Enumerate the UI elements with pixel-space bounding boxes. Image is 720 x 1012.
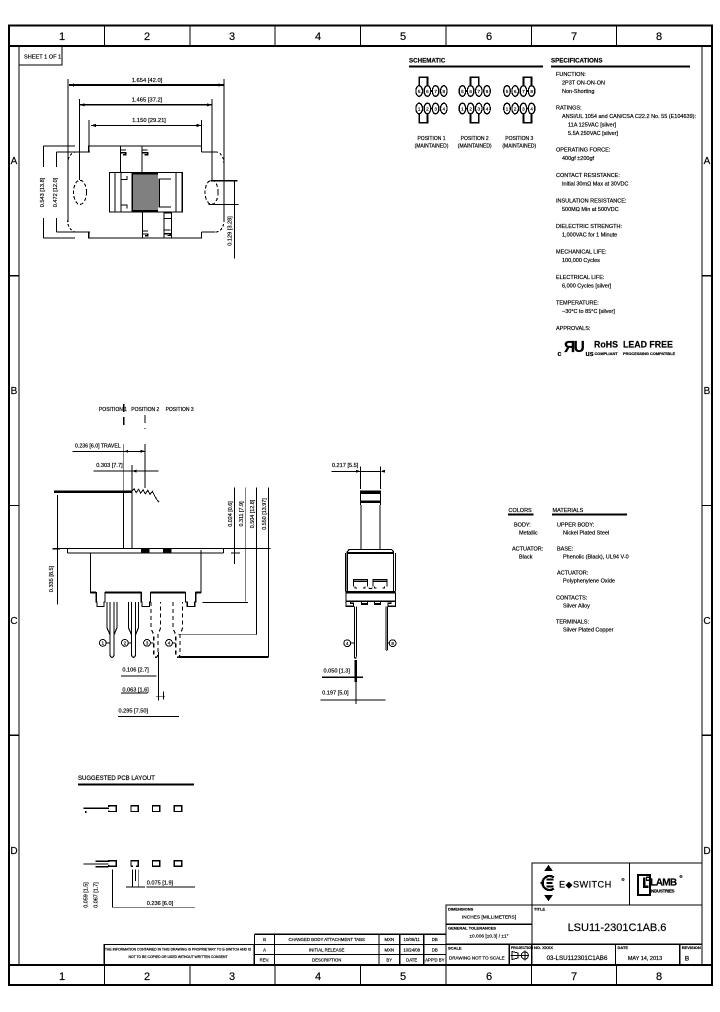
dimension 0.197 [5.0] [321, 691, 386, 700]
top band thick line [9, 45, 712, 47]
svg-text:7: 7 [522, 89, 525, 94]
svg-text:MXN: MXN [385, 947, 395, 952]
svg-text:us: us [586, 351, 594, 358]
svg-text:3: 3 [146, 641, 149, 646]
svg-text:5: 5 [506, 89, 509, 94]
slider left block [121, 173, 132, 213]
pins (end view) [355, 606, 357, 658]
top attachment tab [121, 146, 148, 173]
svg-text:4: 4 [315, 971, 321, 983]
slider right C bracket [159, 179, 171, 207]
svg-text:Metallic: Metallic [519, 531, 538, 537]
svg-text:c: c [558, 351, 562, 358]
dimension 0.303 [7.7] [94, 463, 159, 492]
svg-text:0.335 [8.5]: 0.335 [8.5] [49, 565, 55, 592]
bottom dimension 0.295 [7.50] [118, 709, 179, 717]
svg-text:0.550 [13.97]: 0.550 [13.97] [262, 498, 268, 530]
svg-text:±0.006 [±0.3] / ±1°: ±0.006 [±0.3] / ±1° [469, 934, 508, 940]
svg-text:1: 1 [418, 107, 421, 112]
svg-text:0.236 [6.0]: 0.236 [6.0] [147, 901, 174, 907]
svg-text:DATE: DATE [406, 958, 417, 963]
svg-text:4: 4 [486, 107, 489, 112]
svg-text:NO. XXXX: NO. XXXX [534, 945, 553, 950]
svg-text:(MAINTAINED): (MAINTAINED) [458, 143, 492, 149]
right side dimension lines [203, 488, 269, 657]
bottom attachment tab [142, 212, 171, 239]
svg-text:Non-Shorting: Non-Shorting [562, 89, 594, 95]
svg-text:SCHEMATIC: SCHEMATIC [409, 58, 446, 65]
zone column numbers top [59, 31, 662, 43]
svg-text:(MAINTAINED): (MAINTAINED) [415, 143, 449, 149]
svg-text:LSU11-2301C1AB.6: LSU11-2301C1AB.6 [568, 922, 667, 934]
svg-text:PROJECTION: PROJECTION [511, 946, 534, 950]
svg-text:SCALE: SCALE [448, 946, 462, 951]
svg-text:10/24/08: 10/24/08 [403, 947, 420, 952]
svg-text:Initial 30mΩ Max at 30VDC: Initial 30mΩ Max at 30VDC [562, 182, 628, 188]
slider knurl hatch [133, 173, 158, 211]
title block outline [446, 863, 702, 965]
svg-text:1: 1 [506, 107, 509, 112]
svg-text:B: B [263, 937, 266, 942]
svg-text:PROCESSING COMPATIBLE: PROCESSING COMPATIBLE [623, 351, 676, 356]
svg-text:0.197 [5.0]: 0.197 [5.0] [322, 691, 349, 697]
svg-text:400gf ±200gf: 400gf ±200gf [562, 156, 595, 162]
svg-text:MATERIALS: MATERIALS [553, 508, 584, 514]
svg-text:INCHES [MILLIMETERS]: INCHES [MILLIMETERS] [462, 915, 516, 921]
base bottom thick edges [91, 592, 201, 594]
svg-text:500MΩ Min at 500VDC: 500MΩ Min at 500VDC [562, 207, 619, 213]
svg-text:MXN: MXN [385, 937, 395, 942]
terminal pin 2 [129, 602, 139, 657]
svg-text:POSITION 3: POSITION 3 [166, 407, 194, 413]
left ear plate [68, 152, 89, 232]
bottom band line [9, 964, 712, 966]
zone row letters left [10, 156, 17, 857]
svg-text:DB: DB [432, 947, 438, 952]
base band (end view) [346, 593, 396, 601]
svg-text:CHANGED BODY ATTACHMENT TABS: CHANGED BODY ATTACHMENT TABS [288, 937, 365, 942]
svg-text:0.504 [12.8]: 0.504 [12.8] [250, 499, 256, 528]
svg-text:DRAWING NOT TO SCALE: DRAWING NOT TO SCALE [449, 956, 505, 961]
svg-text:Polyphenylene Oxide: Polyphenylene Oxide [563, 579, 615, 585]
left height dimension 0.335 [8.5] [49, 495, 60, 604]
bottom dimension 0.106 [2.7] [121, 652, 159, 701]
terminal pin 4 (phantom) [173, 602, 183, 657]
body bottom thick line [346, 591, 396, 593]
svg-text:4: 4 [168, 641, 171, 646]
svg-text:8: 8 [443, 89, 446, 94]
svg-text:3: 3 [522, 107, 525, 112]
svg-text:Silver Plated Copper: Silver Plated Copper [563, 628, 614, 634]
svg-text:ACTUATOR:: ACTUATOR: [557, 571, 589, 577]
terminal circles end view [344, 640, 396, 647]
svg-text:1: 1 [59, 31, 65, 43]
svg-text:TITLE: TITLE [534, 907, 545, 912]
svg-text:7: 7 [571, 31, 577, 43]
svg-text:RATINGS:: RATINGS: [556, 106, 582, 112]
svg-text:5: 5 [400, 31, 406, 43]
svg-text:INDUSTRIES: INDUSTRIES [650, 889, 674, 894]
svg-text:8: 8 [391, 641, 394, 646]
svg-text:BY: BY [386, 958, 392, 963]
svg-text:5: 5 [400, 971, 406, 983]
projection symbol [511, 946, 534, 961]
svg-text:C: C [10, 616, 17, 627]
svg-text:3: 3 [229, 971, 235, 983]
position 1 group [416, 77, 447, 123]
svg-text:ELECTRICAL LIFE:: ELECTRICAL LIFE: [556, 275, 605, 281]
svg-text:ANSI/UL 1054 and CAN/CSA C22.2: ANSI/UL 1054 and CAN/CSA C22.2 No. 55 (E… [562, 114, 696, 120]
row 2 dim stack [84, 861, 109, 866]
terminal pin 1 [107, 602, 117, 657]
dimension 1.465 [37.2] [80, 98, 212, 181]
svg-text:THE INFORMATION CONTAINED IN T: THE INFORMATION CONTAINED IN THIS DRAWIN… [105, 948, 252, 952]
position 3 group [504, 77, 535, 123]
svg-text:7: 7 [478, 89, 481, 94]
sheet number box [19, 46, 62, 65]
svg-text:INSULATION RESISTANCE:: INSULATION RESISTANCE: [556, 199, 627, 205]
actuator top face (thick) with break wave [54, 489, 159, 503]
svg-text:03-LSU112301C1AB6: 03-LSU112301C1AB6 [547, 955, 608, 962]
svg-text:A: A [704, 156, 711, 167]
svg-text:®: ® [680, 874, 683, 879]
svg-text:1.150 [29.21]: 1.150 [29.21] [132, 118, 166, 124]
svg-text:D: D [703, 846, 710, 857]
svg-text:1,000VAC for 1 Minute: 1,000VAC for 1 Minute [562, 233, 617, 239]
svg-text:6: 6 [426, 89, 429, 94]
E-SWITCH logo icon [540, 865, 554, 901]
svg-text:APPROVALS:: APPROVALS: [556, 326, 591, 332]
svg-text:0.050 [1.3]: 0.050 [1.3] [324, 669, 351, 675]
svg-text:1: 1 [102, 641, 105, 646]
column tick bottom [104, 965, 616, 985]
row 1 pads [131, 806, 138, 812]
svg-text:SHEET 1 OF 1: SHEET 1 OF 1 [24, 55, 61, 61]
dimension 1.654 [42.0] [68, 78, 224, 220]
zone column numbers bottom [59, 971, 662, 983]
rotated dim texts right side [228, 498, 268, 530]
svg-text:Black: Black [519, 555, 533, 561]
svg-text:0.311 [7.9]: 0.311 [7.9] [239, 501, 245, 527]
svg-text:2P3T ON-ON-ON: 2P3T ON-ON-ON [562, 81, 605, 87]
svg-text:0.295 [7.50]: 0.295 [7.50] [119, 709, 149, 715]
svg-text:POSITION 2: POSITION 2 [131, 407, 159, 413]
position marker line 2 (dashed) [144, 415, 146, 429]
bottom dimension 0.063 [1.6] [121, 687, 165, 699]
svg-text:REVISION: REVISION [682, 945, 701, 950]
svg-text:1: 1 [59, 971, 65, 983]
svg-text:DIMENSIONS: DIMENSIONS [448, 907, 474, 912]
svg-text:APP'D BY: APP'D BY [425, 958, 445, 963]
svg-text:B: B [685, 956, 689, 963]
svg-text:8: 8 [486, 89, 489, 94]
row 1 pad 1 (open) [109, 806, 116, 812]
svg-text:6: 6 [486, 31, 492, 43]
upper body (end view) [346, 549, 396, 591]
svg-text:11A 125VAC [silver]: 11A 125VAC [silver] [568, 123, 617, 129]
svg-text:100,000 Cycles: 100,000 Cycles [562, 258, 600, 264]
dimension 1.150 [29.21] [89, 118, 202, 146]
row ticks left [9, 276, 19, 736]
LAMB logo [638, 874, 683, 895]
svg-text:0.075 [1.9]: 0.075 [1.9] [147, 881, 174, 887]
svg-text:B: B [704, 386, 711, 397]
plate rivet tabs (black) [141, 549, 150, 553]
row 2 pad 1 (open) [109, 861, 116, 867]
svg-text:4: 4 [315, 31, 321, 43]
PCB section bar (black) [354, 660, 357, 682]
svg-text:Nickel Plated Steel: Nickel Plated Steel [563, 531, 609, 537]
svg-text:SPECIFICATIONS: SPECIFICATIONS [551, 58, 602, 65]
svg-text:0.236 [6.0] TRAVEL: 0.236 [6.0] TRAVEL [75, 444, 121, 450]
terminal circles row 5-8 [416, 86, 423, 97]
row ticks right [702, 276, 712, 736]
svg-text:3: 3 [229, 31, 235, 43]
rotated pcb dims [84, 882, 100, 908]
base body outline (side) [91, 550, 201, 607]
svg-text:0.472 [12.0]: 0.472 [12.0] [53, 177, 59, 207]
svg-text:5: 5 [461, 89, 464, 94]
left vertical dimension 0.543 [13.8] [40, 146, 75, 238]
switch cover outline (top view) [89, 146, 202, 238]
svg-text:SUGGESTED PCB LAYOUT: SUGGESTED PCB LAYOUT [78, 776, 155, 782]
UL recognized mark [558, 339, 594, 358]
svg-text:TEMPERATURE:: TEMPERATURE: [556, 301, 599, 307]
svg-text:8: 8 [656, 31, 662, 43]
svg-text:7: 7 [434, 89, 437, 94]
svg-text:6: 6 [469, 89, 472, 94]
svg-text:0.303 [7.7]: 0.303 [7.7] [96, 463, 123, 469]
svg-text:BASE:: BASE: [557, 547, 574, 553]
svg-text:0.106 [2.7]: 0.106 [2.7] [122, 668, 149, 674]
svg-text:Phenolic (Black), UL94 V-0: Phenolic (Black), UL94 V-0 [563, 555, 629, 561]
svg-text:RoHS: RoHS [594, 340, 618, 350]
svg-text:POSITION 1: POSITION 1 [99, 407, 127, 413]
svg-text:OPERATING FORCE:: OPERATING FORCE: [556, 148, 611, 154]
svg-text:REV.: REV. [260, 958, 270, 963]
dimension 0.050 [1.3] [322, 669, 363, 678]
svg-text:DATE: DATE [618, 945, 629, 950]
svg-text:NOT TO BE COPIED OR USED WITHO: NOT TO BE COPIED OR USED WITHOUT WRITTEN… [128, 955, 227, 959]
svg-text:A: A [11, 156, 18, 167]
svg-text:1.465 [37.2]: 1.465 [37.2] [132, 98, 163, 104]
svg-text:Silver Alloy: Silver Alloy [563, 604, 590, 610]
svg-text:6: 6 [514, 89, 517, 94]
svg-text:UPPER BODY:: UPPER BODY: [557, 523, 595, 529]
svg-text:3: 3 [434, 107, 437, 112]
actuator sides [123, 492, 125, 549]
svg-text:MECHANICAL LIFE:: MECHANICAL LIFE: [556, 250, 607, 256]
zone row letters right [703, 156, 710, 857]
svg-text:DB: DB [432, 937, 438, 942]
svg-text:(MAINTAINED): (MAINTAINED) [502, 143, 536, 149]
svg-text:2: 2 [144, 31, 150, 43]
position labels [99, 407, 194, 413]
svg-text:COMPLIANT: COMPLIANT [595, 351, 619, 356]
svg-text:LAMB: LAMB [650, 878, 677, 889]
svg-text:7: 7 [571, 971, 577, 983]
svg-text:®: ® [622, 877, 625, 882]
svg-text:0.024 [0.6]: 0.024 [0.6] [228, 501, 234, 527]
row 2 pads [131, 861, 138, 867]
svg-text:1.654 [42.0]: 1.654 [42.0] [132, 78, 163, 84]
feet [346, 601, 396, 606]
svg-text:POSITION 2: POSITION 2 [461, 136, 489, 142]
svg-text:2: 2 [124, 641, 127, 646]
revision table [254, 934, 446, 964]
svg-text:10/05/11: 10/05/11 [403, 937, 420, 942]
svg-text:C: C [703, 616, 710, 627]
contact blocks inside [353, 580, 387, 589]
pin datum lines to right dims [178, 634, 257, 636]
row 1 centerline [84, 807, 109, 809]
svg-text:2: 2 [469, 107, 472, 112]
svg-text:4: 4 [443, 107, 446, 112]
terminal pin 3 (phantom) [151, 602, 161, 657]
left vertical dimension 0.472 [12.0] [53, 152, 90, 232]
svg-text:GENERAL TOLERANCES: GENERAL TOLERANCES [448, 926, 496, 931]
slider mechanism outer [109, 173, 182, 213]
slider inner left line [114, 173, 116, 213]
svg-text:2: 2 [144, 971, 150, 983]
actuator (end view) [360, 491, 380, 549]
svg-text:3: 3 [478, 107, 481, 112]
svg-text:POSITION 1: POSITION 1 [417, 136, 445, 142]
position 2 group [459, 77, 490, 123]
svg-text:CONTACTS:: CONTACTS: [556, 596, 588, 602]
svg-text:8: 8 [656, 971, 662, 983]
svg-text:8: 8 [530, 89, 533, 94]
svg-text:FUNCTION:: FUNCTION: [556, 72, 586, 78]
disclaimer box [104, 945, 254, 966]
svg-text:0.129 [3.28]: 0.129 [3.28] [227, 216, 233, 246]
svg-text:6: 6 [486, 971, 492, 983]
svg-text:0.059 [1.5]: 0.059 [1.5] [84, 882, 90, 908]
mounting hole left (hidden line) [74, 180, 87, 204]
svg-text:1: 1 [461, 107, 464, 112]
travel dimension 0.236 [6.0] TRAVEL [73, 444, 145, 493]
svg-text:0.067 [1.7]: 0.067 [1.7] [94, 882, 100, 908]
svg-text:0.217 [5.5]: 0.217 [5.5] [332, 463, 359, 469]
svg-text:ЯU: ЯU [564, 339, 585, 356]
terminal number circles [99, 640, 175, 647]
svg-text:A: A [263, 947, 266, 952]
svg-text:5.5A 250VAC [silver]: 5.5A 250VAC [silver] [568, 131, 619, 137]
svg-text:4: 4 [530, 107, 533, 112]
svg-text:DESCRIPTION: DESCRIPTION [312, 958, 341, 963]
svg-text:CONTACT RESISTANCE:: CONTACT RESISTANCE: [556, 173, 620, 179]
svg-text:6,000 Cycles [silver]: 6,000 Cycles [silver] [562, 284, 612, 290]
slider right end line [175, 173, 177, 213]
svg-text:−30°C to 85°C [silver]: −30°C to 85°C [silver] [562, 309, 615, 315]
svg-text:4: 4 [346, 641, 349, 646]
svg-text:TERMINALS:: TERMINALS: [556, 620, 589, 626]
svg-text:INITIAL RELEASE: INITIAL RELEASE [309, 947, 345, 952]
actuator width dimension 0.217 [5.5] [331, 463, 385, 489]
position marker line 1 (dashed) [123, 404, 125, 429]
mounting plate (side) [53, 548, 271, 553]
svg-text:DIELECTRIC STRENGTH:: DIELECTRIC STRENGTH: [556, 224, 622, 230]
svg-text:B: B [11, 386, 18, 397]
svg-text:COLORS: COLORS [509, 508, 533, 514]
svg-text:BODY:: BODY: [514, 523, 531, 529]
svg-text:2: 2 [514, 107, 517, 112]
top connection bracket [419, 77, 427, 85]
svg-text:5: 5 [418, 89, 421, 94]
svg-text:2: 2 [426, 107, 429, 112]
svg-text:MAY 14, 2013: MAY 14, 2013 [628, 956, 662, 962]
terminal circles row 1-4 [416, 103, 423, 114]
svg-text:E◆SWITCH: E◆SWITCH [559, 879, 612, 889]
right vertical dimension 0.129 [3.28] [209, 181, 239, 259]
svg-text:POSITION 3: POSITION 3 [505, 136, 533, 142]
svg-text:ACTUATOR:: ACTUATOR: [512, 547, 544, 553]
svg-text:0.543 [13.8]: 0.543 [13.8] [40, 177, 46, 207]
svg-text:LEAD FREE: LEAD FREE [623, 340, 673, 350]
pcb dim extension lines [112, 870, 145, 908]
svg-text:D: D [10, 846, 17, 857]
right ear plate [202, 152, 224, 232]
bottom connection bracket [419, 114, 427, 122]
column tick top [104, 26, 616, 47]
mounting hole right (hidden line) [205, 180, 218, 204]
